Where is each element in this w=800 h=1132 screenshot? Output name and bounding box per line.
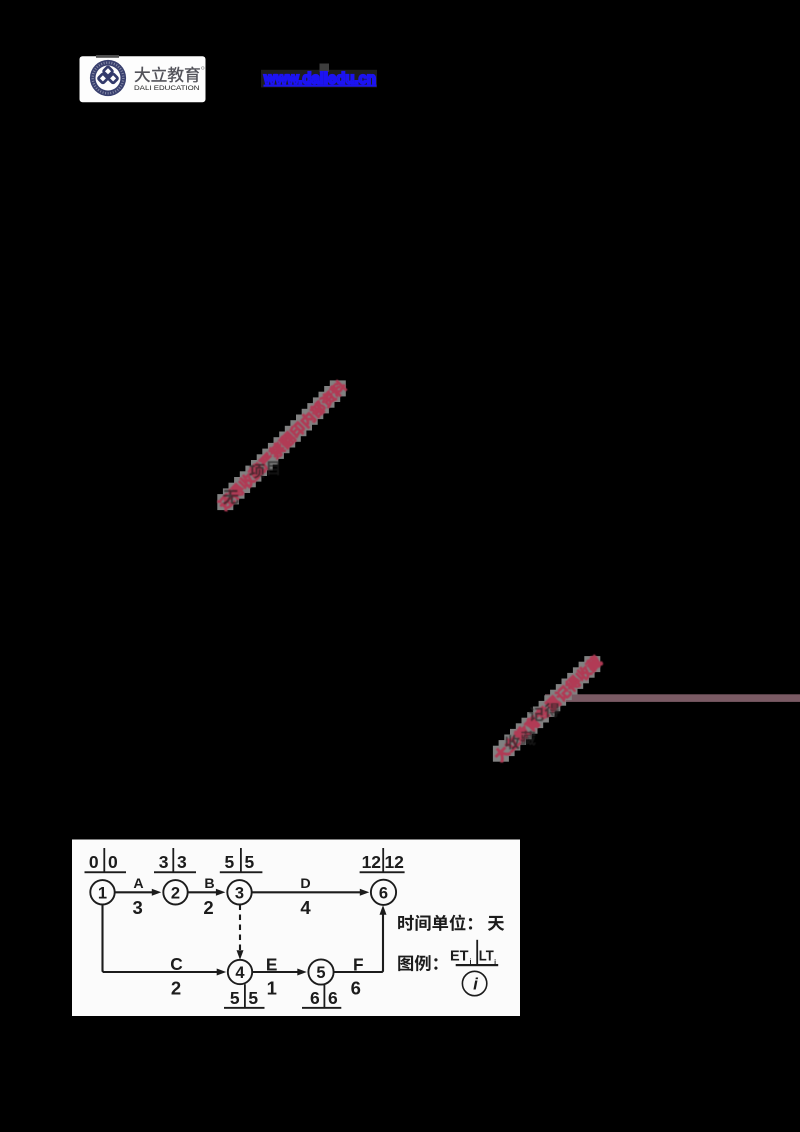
svg-text:E: E: [266, 954, 278, 974]
watermark 1 dark document chars: [223, 461, 279, 504]
svg-text:B: B: [204, 876, 214, 892]
watermark 1 grey highlight band: [217, 380, 345, 510]
svg-text:2: 2: [203, 897, 213, 918]
svg-text:2: 2: [171, 884, 180, 902]
node 3: [227, 880, 251, 904]
arrow activity F (5 right and up to 6): [333, 905, 386, 998]
node 4: [228, 960, 252, 984]
arrow activity E (4 to 5): [252, 954, 307, 998]
node 6: [371, 880, 396, 905]
legend ETi|LTi symbol: [450, 940, 498, 967]
svg-text:1: 1: [98, 884, 107, 902]
network diagram white panel: [72, 840, 520, 1017]
svg-text:5: 5: [248, 988, 258, 1008]
link backdrop: [261, 70, 377, 88]
logo text 大立教育: [134, 66, 204, 82]
svg-text:3: 3: [177, 852, 187, 872]
svg-text:ET: ET: [450, 947, 469, 964]
arrow activity A (1 to 2): [115, 876, 162, 918]
node 5: [308, 959, 333, 984]
node 1: [90, 880, 114, 904]
svg-text:1: 1: [267, 977, 277, 998]
svg-text:DALI EDUCATION: DALI EDUCATION: [134, 85, 200, 92]
svg-text:12: 12: [362, 852, 382, 872]
ET/LT label 5|5 above node 3: [220, 848, 263, 873]
horizontal mauve rule from watermark 2 to right edge: [545, 694, 800, 702]
ET/LT label 12|12 above node 6: [360, 848, 405, 873]
watermark 2 red text: [492, 654, 603, 763]
svg-text:6: 6: [328, 988, 338, 1008]
logo seal emblem: [90, 60, 126, 96]
svg-text:6: 6: [351, 977, 361, 998]
node 2: [163, 880, 187, 904]
svg-text:4: 4: [300, 897, 311, 918]
svg-text:F: F: [353, 954, 364, 974]
logo white card: [80, 56, 206, 102]
svg-text:C: C: [170, 954, 182, 974]
arrow activity D (3 to 6): [252, 876, 370, 918]
ET/LT label 5|5 below node 4: [224, 984, 265, 1009]
ET/LT label 6|6 below node 5: [302, 984, 341, 1009]
watermark 1 red text: [216, 379, 348, 512]
ET/LT label 3|3 above node 2: [154, 848, 196, 873]
arrow activity C (1 down and right to 4): [103, 905, 227, 999]
svg-text:3: 3: [235, 884, 244, 902]
dashed dummy arrow (3 to 4): [237, 905, 244, 960]
legend time unit text 时间单位：天: [398, 914, 504, 930]
svg-text:6: 6: [379, 884, 388, 902]
logo text DALI EDUCATION: [134, 85, 200, 92]
svg-text:0: 0: [108, 852, 118, 872]
svg-text:LT: LT: [479, 947, 495, 964]
legend label 图例：: [398, 955, 437, 971]
svg-text:5: 5: [225, 852, 235, 872]
svg-text:6: 6: [310, 988, 320, 1008]
svg-text:3: 3: [133, 897, 143, 918]
watermark 2 grey highlight band: [493, 656, 600, 762]
watermark 2 dark document chars: [505, 703, 559, 750]
svg-text:5: 5: [230, 988, 240, 1008]
svg-text:3: 3: [159, 852, 169, 872]
svg-text:5: 5: [245, 852, 255, 872]
ET/LT label 0|0 above node 1: [85, 848, 127, 873]
grey tab above logo: [96, 55, 119, 58]
small grey square above link: [320, 64, 330, 73]
svg-text:D: D: [300, 876, 310, 892]
svg-text:4: 4: [235, 964, 245, 982]
svg-text:A: A: [133, 876, 143, 892]
legend node symbol circled i: [462, 971, 486, 995]
arrow activity B (2 to 3): [188, 876, 226, 918]
svg-text:5: 5: [316, 964, 325, 982]
svg-text:12: 12: [384, 852, 404, 872]
blue hyperlink www.daliedu.cn: [263, 71, 376, 88]
svg-text:0: 0: [89, 852, 99, 872]
svg-text:2: 2: [171, 977, 181, 998]
